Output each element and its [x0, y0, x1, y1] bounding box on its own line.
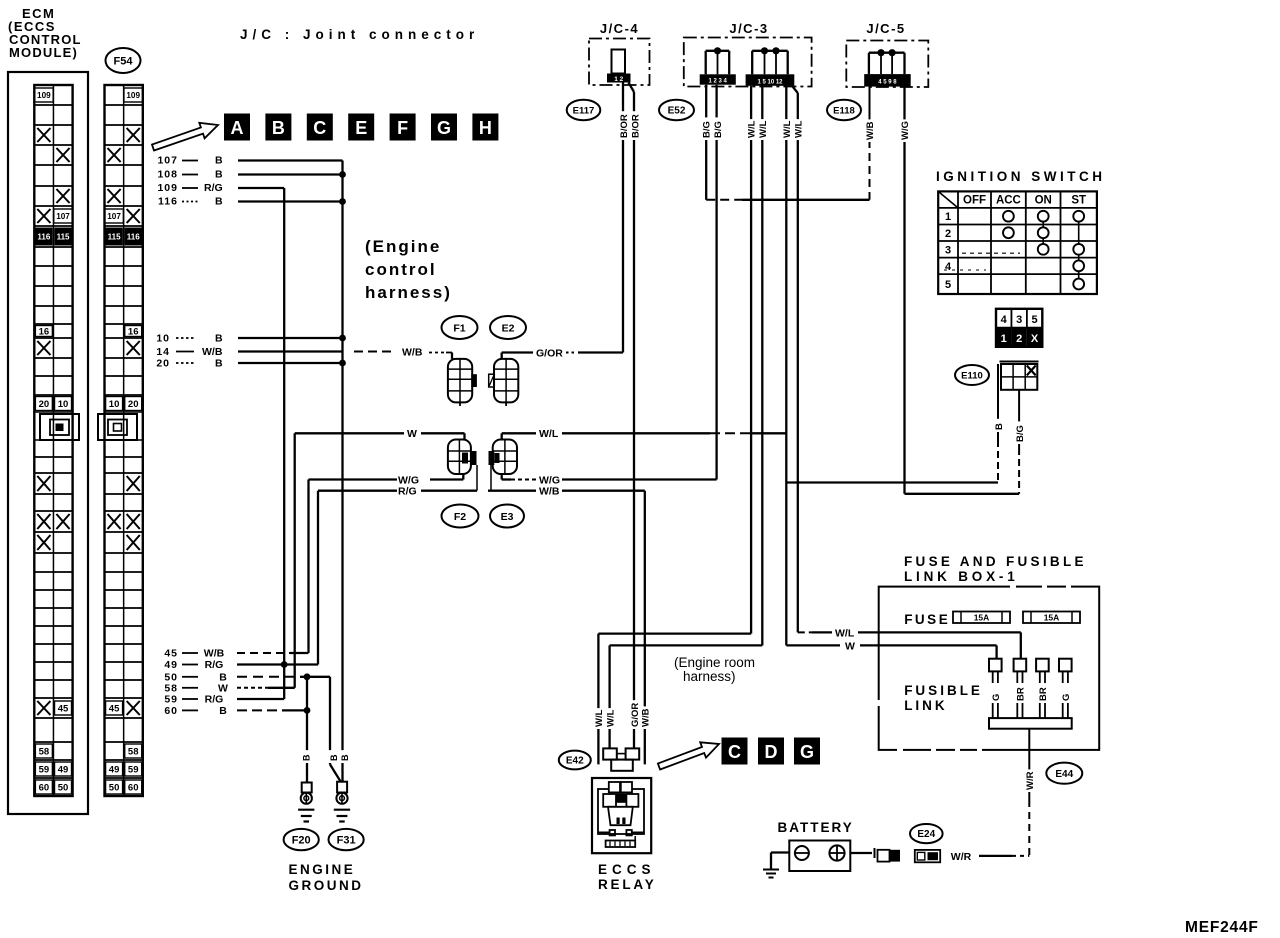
wire W/G stub out of F2 bottom — [462, 474, 464, 480]
link row E110-B to W/L riser — [786, 481, 998, 483]
fusible link G — [989, 659, 1002, 672]
wire pin116 to trunk — [238, 200, 343, 202]
svg-text:58: 58 — [164, 682, 178, 694]
svg-text:E3: E3 — [501, 511, 514, 523]
svg-text:15A: 15A — [1044, 613, 1060, 623]
svg-text:W/L: W/L — [747, 120, 758, 138]
svg-text:4: 4 — [945, 261, 952, 273]
svg-text:R/G: R/G — [204, 182, 223, 194]
svg-text:B: B — [340, 754, 350, 761]
connector half F1 (grid capsule) — [448, 359, 472, 403]
svg-text:59: 59 — [39, 764, 50, 775]
svg-text:OFF: OFF — [963, 195, 986, 207]
fusible link BR — [1014, 659, 1027, 672]
svg-text:X: X — [1031, 333, 1039, 345]
ignition switch table — [938, 191, 1097, 294]
svg-text:B: B — [215, 196, 223, 208]
wire trunk B (pins 107,108,116,10,20 to ground F31) — [341, 161, 343, 782]
relay coil resistor (hatched) — [606, 841, 636, 848]
wire label BR — [1038, 684, 1049, 703]
svg-text:ST: ST — [1071, 195, 1086, 207]
wire pin49 — [237, 663, 318, 665]
svg-text:A: A — [231, 118, 244, 138]
wire label B — [993, 419, 1004, 432]
svg-text:W/L: W/L — [758, 120, 769, 138]
svg-text:W/L: W/L — [594, 709, 605, 727]
wire W/L drop 2 to ECCS relay — [761, 86, 763, 646]
wire B/OR drop from J/C-4 to ECCS relay — [629, 83, 635, 93]
svg-text:B: B — [215, 333, 223, 345]
svg-text:control: control — [365, 260, 437, 279]
wire pin58 — [237, 687, 268, 689]
svg-text:B/OR: B/OR — [619, 114, 630, 138]
svg-text:harness): harness) — [683, 669, 736, 684]
J/C-3 dash-dot box — [684, 38, 812, 87]
wire W/L drop 3 (to W/L row, E110 link, fuse W) — [785, 86, 787, 646]
svg-text:ENGINE: ENGINE — [289, 862, 356, 877]
svg-text:ECCS: ECCS — [598, 862, 656, 877]
ECM right connector strip (pin grid, F54) — [105, 84, 143, 86]
fusible link symbol at E24 — [915, 850, 940, 862]
J/C-5 pin strip — [864, 74, 911, 87]
svg-text:RELAY: RELAY — [598, 877, 657, 892]
svg-text:W/B: W/B — [539, 486, 560, 498]
wire label W/L — [605, 708, 616, 729]
wire label W/B — [640, 706, 651, 729]
wire W stub into F2 — [421, 432, 465, 434]
wire W/G row from riser — [309, 478, 398, 480]
svg-text:45: 45 — [58, 703, 69, 714]
svg-text:W/G: W/G — [900, 121, 911, 140]
svg-text:45: 45 — [109, 703, 120, 714]
wire W/L to J/C-3 riser — [562, 432, 710, 434]
wire W from pin58 riser to F2 — [295, 432, 404, 434]
svg-text:W/B: W/B — [402, 347, 423, 359]
fuse box outline — [879, 587, 1099, 750]
wire E24 to fuse box drop — [979, 855, 1012, 857]
connector F2 oval label — [442, 505, 479, 528]
svg-text:ON: ON — [1035, 195, 1052, 207]
connector E2 lock tab (hatched) — [489, 374, 495, 387]
svg-text:5: 5 — [1032, 314, 1038, 326]
wire label B/OR — [618, 111, 629, 140]
wire label W/B — [864, 119, 875, 142]
connector E110 oval label — [955, 365, 989, 385]
wire label B — [301, 750, 312, 763]
svg-text:W/L: W/L — [539, 428, 559, 440]
svg-text:D: D — [765, 742, 778, 762]
ECM outer box — [8, 72, 88, 814]
connector F2 lock tab — [471, 451, 477, 465]
svg-text:59: 59 — [128, 764, 139, 775]
connector F1 lock tab — [471, 374, 477, 387]
svg-text:60: 60 — [39, 782, 50, 793]
svg-text:49: 49 — [58, 764, 69, 775]
connector F20 oval label — [284, 829, 319, 850]
ignition switch contact circles — [1003, 211, 1014, 222]
J/C-4 joint connector body — [612, 50, 626, 74]
svg-text:LINK BOX-1: LINK BOX-1 — [904, 569, 1019, 584]
connector F1 oval label — [442, 316, 478, 339]
svg-text:B: B — [215, 358, 223, 370]
wire riser W (pin 58 to W row) — [294, 433, 296, 688]
svg-text:49: 49 — [164, 659, 178, 671]
svg-text:E110: E110 — [961, 370, 983, 381]
letter code boxes A B C E F G H — [224, 114, 250, 141]
wire B from E110 — [997, 364, 999, 440]
svg-text:(Engine: (Engine — [365, 237, 441, 256]
svg-text:harness): harness) — [365, 283, 452, 302]
svg-text:F54: F54 — [114, 55, 134, 67]
svg-text:G: G — [437, 118, 451, 138]
wire label B/G — [701, 117, 712, 140]
fusible link bus bar — [989, 718, 1072, 729]
battery box — [789, 841, 850, 872]
svg-text:58: 58 — [128, 746, 139, 757]
wire G/OR to J/C-4 — [566, 352, 574, 354]
arrow to ECM harness letter codes — [152, 123, 218, 151]
wire label B — [328, 750, 339, 763]
svg-text:116: 116 — [37, 233, 50, 242]
wire W/B stub into F1 — [451, 353, 453, 359]
svg-text:LINK: LINK — [904, 698, 948, 713]
ground terminal F31 — [337, 782, 347, 793]
svg-text:H: H — [479, 118, 492, 138]
svg-text:4 5 9 8: 4 5 9 8 — [878, 80, 897, 86]
svg-text:5: 5 — [945, 279, 951, 291]
wire label W/L — [782, 119, 793, 140]
svg-text:1 2 3 4: 1 2 3 4 — [709, 79, 728, 85]
svg-text:B: B — [219, 705, 227, 717]
svg-text:B/G: B/G — [1015, 425, 1026, 442]
wire pin10 to trunk — [238, 337, 343, 339]
svg-text:2: 2 — [945, 228, 951, 240]
svg-text:50: 50 — [109, 782, 120, 793]
svg-text:W/L: W/L — [782, 120, 793, 138]
svg-text:W/L: W/L — [793, 120, 804, 138]
junction dot pin49/R/G riser — [281, 661, 288, 668]
svg-text:E52: E52 — [668, 106, 686, 117]
wire pin45 — [237, 652, 290, 654]
svg-text:109: 109 — [126, 91, 140, 100]
wire label B/OR — [630, 111, 641, 140]
svg-text:10: 10 — [156, 333, 170, 345]
wire B/G from E110 — [1018, 390, 1020, 448]
svg-text:20: 20 — [39, 399, 50, 410]
wire W/G stub out of E3 bottom — [501, 474, 503, 480]
fuse 15A symbol 2 — [1023, 612, 1080, 624]
wire W/L drop 4 (to fuse box W/L) — [792, 86, 798, 93]
wire label B/G — [1014, 421, 1025, 444]
ignition switch connector pin block — [996, 309, 1011, 328]
ECM left strip keying bracket with filled square — [40, 414, 79, 440]
relay coil pins — [609, 782, 620, 792]
wire label B/G — [713, 117, 724, 140]
arrow to relay letter codes — [658, 742, 719, 769]
svg-text:16: 16 — [39, 326, 50, 337]
svg-text:FUSIBLE: FUSIBLE — [904, 683, 983, 698]
connector E118 oval label — [827, 100, 861, 120]
wire G/OR out of E2 — [501, 353, 503, 359]
svg-text:R/G: R/G — [205, 694, 224, 706]
connector half E2 (grid capsule) — [494, 359, 518, 403]
svg-text:10: 10 — [58, 399, 69, 410]
wire label BR — [1015, 684, 1026, 703]
svg-text:W: W — [407, 428, 417, 440]
svg-text:W/G: W/G — [539, 475, 560, 487]
svg-text:W/B: W/B — [865, 121, 876, 140]
fusible link symbol at battery — [878, 850, 890, 862]
wire W/B drop from J/C-5 to link row — [869, 87, 871, 140]
wire riser W/G (pin 45 to W/G row) — [307, 480, 309, 654]
svg-text:60: 60 — [128, 782, 139, 793]
J/C-3 joint connector B bridge — [752, 50, 788, 52]
svg-text:J/C-4: J/C-4 — [600, 21, 639, 36]
svg-text:MODULE): MODULE) — [9, 45, 78, 60]
wire label W/L — [746, 119, 757, 140]
svg-text:MEF244F: MEF244F — [1185, 919, 1259, 936]
svg-text:E118: E118 — [833, 105, 855, 116]
svg-text:14: 14 — [156, 346, 170, 358]
wire pin14 to connector F1 — [238, 350, 343, 352]
connector F54 oval — [106, 48, 141, 73]
connector E52 oval label — [659, 100, 694, 120]
svg-text:F: F — [397, 118, 408, 138]
svg-text:(Engine room: (Engine room — [674, 655, 755, 670]
connector E110 grid — [1000, 361, 1039, 363]
wire riser R/G (pins 109-49-59) — [283, 188, 285, 699]
svg-text:20: 20 — [128, 399, 139, 410]
svg-text:B: B — [329, 754, 339, 761]
wire pin107 to trunk — [238, 159, 343, 161]
svg-text:115: 115 — [108, 233, 121, 242]
wire pin60 — [237, 709, 282, 711]
svg-text:W/B: W/B — [641, 708, 652, 727]
connector E24 oval label — [910, 824, 943, 843]
svg-text:B: B — [302, 754, 312, 761]
svg-text:1 5 10 12: 1 5 10 12 — [757, 79, 783, 85]
ECCS relay box — [592, 778, 651, 853]
svg-text:J/C-3: J/C-3 — [729, 21, 768, 36]
svg-text:115: 115 — [57, 233, 70, 242]
svg-text:W/L: W/L — [835, 627, 855, 639]
connector E42 oval label — [559, 751, 591, 770]
chassis ground symbol — [763, 869, 779, 871]
svg-text:60: 60 — [164, 705, 178, 717]
J/C-3 connector A pin strip — [700, 74, 736, 84]
ECM left connector strip (pin grid) — [34, 84, 72, 86]
wire W into fuse box to fusible link 1 — [860, 644, 997, 646]
svg-text:FUSE: FUSE — [904, 612, 950, 627]
svg-text:50: 50 — [58, 782, 69, 793]
svg-text:J/C-5: J/C-5 — [866, 21, 905, 36]
svg-text:109: 109 — [157, 182, 178, 194]
svg-text:59: 59 — [164, 694, 178, 706]
svg-text:E24: E24 — [917, 829, 935, 840]
wire riser B/G (J/C-3 to W/G row) — [715, 85, 717, 480]
link row B/G to W/B of J/C-5 — [706, 199, 742, 201]
svg-text:W/L: W/L — [605, 709, 616, 727]
wire ground drop from pin 50 row — [306, 677, 308, 783]
svg-text:108: 108 — [157, 169, 178, 181]
wire W/B to ECCS relay drop — [562, 490, 645, 492]
relay armature — [608, 807, 633, 825]
svg-text:J/C : Joint connector: J/C : Joint connector — [240, 27, 479, 42]
relay black bar — [616, 793, 627, 803]
E42 relay connector blocks — [603, 748, 617, 759]
wire pin109 right then down (R/G riser) — [238, 187, 284, 189]
svg-text:B: B — [272, 118, 285, 138]
connector E3 lock tab — [489, 451, 495, 465]
wire label W/L — [793, 119, 804, 140]
svg-text:W/B: W/B — [204, 648, 225, 660]
svg-text:W: W — [218, 682, 228, 694]
wire W/L vertical 1 into relay connector — [597, 634, 599, 765]
wire label G — [1061, 690, 1072, 703]
svg-text:E42: E42 — [566, 756, 584, 767]
svg-text:1: 1 — [945, 211, 951, 223]
svg-text:3: 3 — [1016, 314, 1022, 326]
junction dots pin50 and pin60 — [304, 673, 311, 680]
svg-text:4: 4 — [1001, 314, 1008, 326]
svg-text:16: 16 — [128, 326, 139, 337]
svg-text:C: C — [313, 118, 326, 138]
wire W/L drop 1 to ECCS relay — [750, 86, 752, 634]
wire pin50 — [237, 676, 300, 678]
wire W/G to J/C-3 B/G riser — [562, 478, 717, 480]
svg-text:B: B — [994, 423, 1005, 430]
svg-text:116: 116 — [158, 196, 178, 208]
svg-text:BR: BR — [1038, 687, 1049, 701]
J/C-4 dash-dot box — [589, 39, 650, 86]
wire G/OR riser to J/C-4 — [622, 82, 624, 353]
svg-text:B/G: B/G — [713, 121, 724, 138]
connector F31 oval label — [329, 829, 364, 850]
relay side contacts — [603, 794, 616, 807]
J/C-5 dash-dot box — [846, 41, 928, 88]
wire label W/G — [899, 119, 910, 142]
svg-text:F1: F1 — [453, 322, 465, 334]
svg-text:E: E — [355, 118, 367, 138]
svg-text:58: 58 — [39, 746, 50, 757]
connector half F2 (grid capsule) — [448, 440, 471, 475]
wire W/L out of E3 — [501, 433, 503, 439]
svg-text:GROUND: GROUND — [289, 878, 364, 893]
junction dots on B trunk — [339, 171, 346, 178]
wire label B — [339, 750, 350, 763]
wire R/G row from riser — [318, 490, 397, 492]
relay bottom terminals — [598, 831, 610, 833]
svg-text:G/OR: G/OR — [630, 703, 641, 727]
svg-text:G: G — [991, 694, 1002, 701]
wire battery to chassis ground — [771, 851, 789, 853]
wire W/R from fusible link bus to battery line — [1028, 729, 1030, 800]
ignition switch contact link lines — [1042, 216, 1044, 249]
J/C-3 connector B pin strip — [746, 74, 795, 86]
wire label G — [991, 690, 1002, 703]
table header diagonal — [938, 191, 958, 208]
connector E117 oval label — [567, 100, 601, 120]
svg-text:1 2: 1 2 — [614, 76, 623, 83]
svg-text:107: 107 — [157, 155, 178, 167]
wire ground drop to F31 (from pin 50 row corner) — [329, 677, 331, 765]
svg-text:W/R: W/R — [951, 851, 972, 863]
svg-text:FUSE AND FUSIBLE: FUSE AND FUSIBLE — [904, 554, 1087, 569]
wire riser R/G (pin 49 to R/G row) — [317, 491, 319, 665]
svg-text:E44: E44 — [1055, 769, 1073, 780]
J/C-5 joint connector bridge — [869, 52, 905, 54]
wire W/L into fuse box to fusible link 2 — [858, 631, 1021, 633]
svg-text:W/R: W/R — [1025, 771, 1036, 790]
svg-text:W: W — [845, 640, 855, 652]
connector E3 oval label — [490, 505, 524, 528]
wire B/G drop 1 (to E117 link row) — [705, 85, 707, 200]
wire label G/OR — [629, 700, 640, 729]
svg-text:B/G: B/G — [702, 121, 713, 138]
connector E2 oval label — [490, 316, 526, 339]
svg-text:107: 107 — [107, 212, 121, 221]
svg-text:W/B: W/B — [202, 346, 223, 358]
wire pin20 to trunk — [238, 362, 343, 364]
fusible link G — [1059, 659, 1072, 672]
svg-text:F2: F2 — [454, 511, 466, 523]
svg-text:C: C — [728, 742, 741, 762]
wire pin108 to trunk — [238, 173, 343, 175]
svg-text:B: B — [215, 155, 223, 167]
E110 keying X mark — [1027, 366, 1036, 376]
svg-text:F31: F31 — [337, 835, 356, 847]
letter code boxes C D G — [722, 738, 748, 765]
svg-text:B: B — [215, 169, 223, 181]
connector half E3 (grid capsule) — [493, 440, 517, 475]
svg-text:G/OR: G/OR — [536, 348, 563, 360]
svg-text:B/OR: B/OR — [630, 114, 641, 138]
wire label W/L — [757, 119, 768, 140]
svg-text:R/G: R/G — [205, 659, 224, 671]
wire label W/L — [594, 708, 605, 729]
svg-text:20: 20 — [156, 358, 170, 370]
fusible link BR — [1036, 659, 1049, 672]
ground terminal F20 — [302, 783, 312, 793]
connector E44 oval label — [1046, 763, 1082, 784]
battery positive terminal — [829, 845, 844, 860]
wire R/G-W/B row under connectors — [421, 490, 477, 492]
svg-text:R/G: R/G — [398, 486, 417, 498]
ECCS relay inner outline — [598, 789, 644, 834]
wire W/G drop from J/C-5 to E110 link — [903, 87, 905, 494]
J/C-4 pin strip — [607, 74, 631, 83]
svg-text:15A: 15A — [974, 613, 990, 623]
svg-text:F20: F20 — [292, 835, 311, 847]
wire pin59 — [237, 698, 284, 700]
svg-text:45: 45 — [164, 648, 178, 660]
svg-text:49: 49 — [109, 764, 120, 775]
wire W/B drop to ECCS relay — [644, 491, 646, 765]
svg-text:ACC: ACC — [996, 195, 1021, 207]
svg-text:109: 109 — [37, 91, 51, 100]
svg-text:107: 107 — [56, 212, 70, 221]
fuse 15A symbol 1 — [953, 612, 1010, 624]
svg-text:1: 1 — [1001, 333, 1007, 345]
wire battery positive to fusible link — [850, 852, 872, 854]
svg-text:BR: BR — [1016, 687, 1027, 701]
ECM right strip keying bracket with open square — [98, 414, 137, 440]
svg-text:IGNITION SWITCH: IGNITION SWITCH — [936, 169, 1106, 184]
svg-text:E2: E2 — [502, 322, 515, 334]
svg-text:W/G: W/G — [398, 475, 419, 487]
svg-text:2: 2 — [1016, 333, 1022, 345]
svg-text:G: G — [1061, 694, 1072, 701]
